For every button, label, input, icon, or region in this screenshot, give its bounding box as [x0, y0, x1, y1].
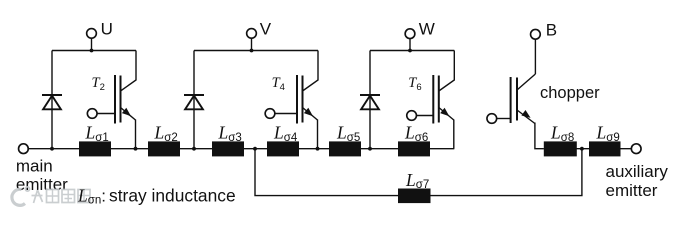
svg-text:Lσ8: Lσ8 — [550, 123, 574, 144]
svg-text:emitter: emitter — [606, 181, 658, 200]
node W rail junction — [408, 49, 412, 53]
wire W top rail — [370, 50, 454, 52]
inductor L5 — [329, 141, 361, 156]
node T4 emitter junction — [316, 147, 320, 151]
diode D2 — [184, 95, 204, 109]
inductor L4 — [267, 141, 299, 156]
node T2 emitter junction — [134, 147, 138, 151]
svg-text:W: W — [419, 20, 435, 39]
svg-text:T6: T6 — [408, 75, 421, 93]
node L7 return junction — [580, 147, 584, 151]
inductor L2 — [148, 141, 180, 156]
wire W terminal stub — [409, 38, 411, 50]
wire U diode branch — [51, 51, 53, 149]
wire U top rail — [52, 50, 136, 52]
inductor L9 — [589, 141, 621, 156]
transistor Q2 T4 — [265, 51, 318, 149]
diode D3 — [360, 95, 380, 109]
svg-text:T2: T2 — [92, 75, 105, 93]
terminal U — [87, 29, 97, 39]
wire main emitter rail — [28, 148, 454, 150]
svg-text:Lσn:: Lσn: — [77, 185, 106, 206]
svg-text:Lσ7: Lσ7 — [405, 170, 429, 191]
svg-text:Lσ4: Lσ4 — [273, 123, 298, 144]
terminal auxiliary emitter — [631, 144, 641, 154]
svg-text:T4: T4 — [272, 75, 285, 93]
wire chopper emitter rail — [544, 148, 632, 150]
inductor L8 — [544, 141, 577, 156]
inductor L6 — [398, 141, 430, 156]
svg-text:Lσ5: Lσ5 — [336, 123, 360, 144]
svg-text:auxiliary: auxiliary — [606, 162, 669, 181]
wire B terminal stub — [534, 39, 536, 74]
wire U terminal stub — [91, 38, 93, 50]
transistor Q1 T2 — [87, 51, 136, 149]
node U diode junction — [50, 147, 54, 151]
svg-text:Lσ9: Lσ9 — [596, 123, 620, 144]
diode D1 — [42, 95, 62, 109]
terminal V — [247, 29, 257, 39]
watermark — [12, 187, 90, 205]
wire W diode branch — [369, 51, 371, 149]
svg-text:U: U — [101, 19, 113, 38]
node U rail junction — [90, 49, 94, 53]
node W diode junction — [368, 147, 372, 151]
inductor L3 — [212, 141, 244, 156]
terminal main emitter — [19, 144, 29, 154]
node L7 tap — [253, 147, 257, 151]
transistor Q4 chopper — [487, 74, 544, 149]
svg-text:B: B — [546, 20, 557, 39]
svg-text:emitter: emitter — [16, 175, 68, 194]
svg-text:V: V — [260, 19, 272, 38]
wire V top rail — [194, 50, 318, 52]
inductor L7 — [398, 189, 431, 204]
svg-text:chopper: chopper — [540, 84, 600, 102]
wire L7 branch down-right — [255, 149, 582, 196]
transistor Q3 T6 — [407, 51, 455, 149]
svg-text:Lσ6: Lσ6 — [404, 123, 428, 144]
node V diode junction — [192, 147, 196, 151]
wire V diode branch — [193, 51, 195, 149]
terminal W — [405, 29, 415, 39]
svg-text:main: main — [16, 157, 53, 176]
svg-text:stray inductance: stray inductance — [109, 185, 236, 205]
svg-text:Lσ1: Lσ1 — [85, 123, 109, 144]
svg-text:Lσ3: Lσ3 — [218, 123, 242, 144]
node V rail junction — [250, 49, 254, 53]
inductor L1 — [79, 141, 111, 156]
terminal B — [531, 29, 541, 39]
wire V terminal stub — [251, 38, 253, 50]
svg-text:Lσ2: Lσ2 — [154, 123, 178, 144]
